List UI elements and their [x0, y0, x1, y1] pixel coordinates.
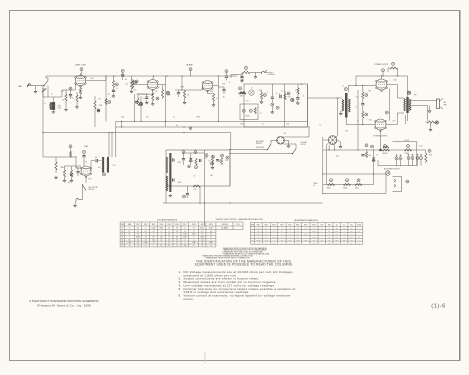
- svg-text:V6: V6: [121, 242, 123, 244]
- part ref circle C14 dark: [291, 98, 294, 101]
- svg-text:8.2: 8.2: [210, 231, 212, 233]
- svg-text:94: 94: [168, 228, 170, 230]
- part ref circle right of C12: [276, 106, 279, 109]
- capacitor C13: [280, 95, 281, 98]
- svg-text:ITEM: ITEM: [251, 224, 254, 226]
- resistor R2 grid leak: [76, 95, 78, 102]
- svg-text:INF: INF: [313, 234, 315, 236]
- part ref circle R10 dark: [139, 102, 142, 105]
- part ref circle T3: [407, 91, 410, 94]
- ground below C7: [145, 101, 148, 104]
- svg-text:-8.4: -8.4: [176, 236, 179, 238]
- wire screen rail x358: [357, 90, 359, 150]
- tuning capacitor C1A: [42, 89, 47, 92]
- svg-text:47K: 47K: [99, 99, 101, 101]
- svg-text:PIN 8: PIN 8: [312, 224, 316, 226]
- svg-text:NC: NC: [153, 236, 155, 238]
- part ref circle R18: [263, 94, 266, 97]
- svg-text:NC: NC: [358, 236, 360, 238]
- svg-text:50: 50: [267, 92, 269, 94]
- svg-text:250K: 250K: [121, 117, 124, 119]
- part ref circle R11 dark: [166, 91, 169, 94]
- ground below R22: [54, 176, 57, 179]
- part ref circles in detector box row1: [182, 151, 185, 154]
- svg-text:1 MEG: 1 MEG: [312, 231, 316, 233]
- svg-text:2.2K: 2.2K: [335, 231, 338, 233]
- svg-text:470K: 470K: [265, 234, 268, 236]
- wire V5 plate to coil: [90, 166, 92, 171]
- inner partition of box: [284, 84, 286, 127]
- svg-text:SWITCH: SWITCH: [256, 143, 262, 145]
- wire box riser x230.8: [230, 133, 232, 150]
- resistor R27 in box: [211, 158, 213, 164]
- resistor R4 470K osc grid: [94, 101, 96, 109]
- inner shield box: [240, 104, 258, 120]
- capacitor C17 padder: [96, 159, 97, 162]
- wire V6 top lead: [335, 136, 338, 137]
- svg-text:HTR: HTR: [201, 224, 204, 226]
- filter box outline: [378, 142, 417, 166]
- svg-text:50L6: 50L6: [393, 121, 396, 123]
- wire left vertical rail x106: [105, 76, 107, 121]
- svg-text:2.2K: 2.2K: [305, 239, 308, 241]
- svg-text:100K: 100K: [296, 234, 299, 236]
- output transformer T3 core: [406, 97, 408, 113]
- svg-text:1.2K: 1.2K: [297, 231, 300, 233]
- resistor R21 in shield box: [254, 108, 256, 114]
- svg-text:2.2K: 2.2K: [305, 234, 308, 236]
- junction dot on box top: [301, 84, 302, 85]
- svg-text:.0005: .0005: [204, 158, 208, 160]
- svg-text:8.2K: 8.2K: [289, 228, 292, 230]
- svg-text:1 MEG: 1 MEG: [196, 117, 200, 119]
- svg-text:470K: 470K: [240, 96, 244, 98]
- svg-text:AF AMP: AF AMP: [187, 64, 194, 67]
- part ref circles at filter: [365, 144, 368, 147]
- svg-text:470K: 470K: [99, 105, 103, 107]
- svg-text:100K: 100K: [296, 228, 299, 230]
- svg-text:1 MEG: 1 MEG: [256, 239, 260, 241]
- svg-text:85: 85: [168, 239, 170, 241]
- svg-text:0.3: 0.3: [289, 231, 291, 233]
- part ref circle L3 dark: [435, 121, 438, 124]
- ground below V1 cathode: [79, 96, 82, 99]
- wire T3 to speaker: [412, 99, 437, 101]
- svg-text:8.2K: 8.2K: [328, 236, 331, 238]
- svg-text:SPK.: SPK.: [444, 104, 448, 106]
- inner partition of detector box: [204, 150, 206, 186]
- svg-text:470K: 470K: [265, 239, 268, 241]
- svg-text:470K: 470K: [257, 236, 260, 238]
- svg-text:NC: NC: [351, 239, 353, 241]
- svg-text:1.2K: 1.2K: [343, 228, 346, 230]
- svg-text:-1.0: -1.0: [128, 245, 131, 247]
- part ref circles in detector box row2: [195, 166, 198, 169]
- resistor R23: [69, 152, 71, 157]
- wire oscillator to tube: [48, 96, 53, 98]
- wire V8 cathode to B+ bus: [380, 130, 382, 150]
- diode D2 rectifier symbol: [373, 150, 375, 174]
- voltage table grid: [120, 222, 243, 247]
- tube V7 50L6 output: [376, 79, 387, 90]
- wire tone circuit top: [231, 74, 242, 76]
- ground below C12: [271, 111, 274, 114]
- svg-text:25: 25: [295, 90, 297, 92]
- svg-text:47K: 47K: [218, 161, 220, 163]
- svg-text:1 MEG: 1 MEG: [180, 87, 184, 89]
- svg-text:680: 680: [98, 167, 100, 169]
- svg-text:NC: NC: [358, 231, 360, 233]
- svg-text:7.4: 7.4: [210, 245, 212, 247]
- phone jack J3: [76, 198, 83, 201]
- capacitor C5 bypass: [112, 90, 115, 91]
- svg-text:B+: B+: [320, 125, 322, 127]
- phono osc coil L2 winding B: [107, 157, 109, 173]
- resistor R22 left: [55, 162, 57, 170]
- IF transformer T1 core: [169, 153, 171, 192]
- svg-text:EQUIPMENT USED IS POSSIBLE: EQUIPMENT USED IS POSSIBLE TO READ THE C…: [195, 262, 292, 266]
- part ref circle R6: [108, 101, 111, 104]
- svg-text:-8.4: -8.4: [137, 228, 140, 230]
- svg-text:B+: B+: [336, 224, 338, 226]
- svg-text:270K: 270K: [225, 160, 228, 162]
- tone capacitor network top right: [390, 67, 397, 69]
- filter resistor row R37 R38 R39: [323, 184, 374, 186]
- svg-text:RESISTANCE READINGS: RESISTANCE READINGS: [294, 219, 318, 222]
- resistor R15 to grid: [239, 92, 246, 94]
- svg-text:OSC: OSC: [61, 91, 64, 93]
- resistor R28 in box: [220, 158, 222, 164]
- svg-text:-8.4: -8.4: [201, 239, 204, 241]
- part ref circle C2: [69, 87, 72, 90]
- part ref circle P3: [406, 180, 409, 183]
- svg-text:470: 470: [155, 91, 157, 93]
- cathode of V5 to switch: [85, 176, 87, 183]
- svg-text:1 MEG: 1 MEG: [256, 228, 260, 230]
- T1 secondary winding: [166, 176, 168, 191]
- part ref circle R4 dark: [97, 109, 100, 112]
- svg-text:POWER OUTPUT: POWER OUTPUT: [375, 64, 389, 66]
- wire T3 bottom down: [407, 113, 409, 121]
- svg-text:PIN 5: PIN 5: [167, 224, 171, 226]
- ground below R24: [63, 179, 66, 182]
- capacitor C19 in box: [216, 160, 219, 161]
- part ref circle R7: [134, 81, 137, 84]
- svg-text:NC: NC: [351, 228, 353, 230]
- part ref circle V1 top cap: [80, 68, 83, 71]
- junction dots ground bus y132.7: [42, 132, 43, 133]
- svg-text:.01: .01: [216, 98, 218, 100]
- filter electrolytic capacitors C23: [395, 157, 398, 160]
- svg-text:V2: V2: [121, 231, 123, 233]
- svg-text:100K: 100K: [273, 236, 276, 238]
- on-off switch S3: [268, 144, 272, 150]
- svg-text:5.: 5.: [179, 287, 182, 291]
- svg-text:A PHOTOFACT STANDARD NOTATI: A PHOTOFACT STANDARD NOTATION SCHEMATIC: [29, 299, 99, 303]
- svg-text:470K: 470K: [257, 231, 260, 233]
- svg-text:2.2K: 2.2K: [335, 242, 338, 244]
- svg-text:117V: 117V: [345, 131, 348, 133]
- wire ground bus y132.7: [43, 132, 231, 134]
- svg-text:.05: .05: [116, 88, 118, 90]
- resistor R26 in box: [195, 159, 197, 165]
- svg-text:OSC: OSC: [350, 224, 353, 226]
- wire box right edge: [306, 84, 308, 127]
- svg-text:95: 95: [168, 242, 170, 244]
- svg-text:20 20: 20 20: [419, 146, 423, 148]
- ground below field coil: [430, 126, 432, 128]
- capacitor C22: [361, 155, 364, 156]
- ground at P1: [284, 139, 288, 141]
- wire IF coupling corner: [137, 93, 146, 95]
- wire switch to socket: [270, 140, 272, 144]
- svg-text:PIN 4: PIN 4: [160, 224, 164, 226]
- svg-text:6.3: 6.3: [176, 125, 178, 127]
- svg-text:FILTER: FILTER: [405, 140, 410, 142]
- grid wires of converter: [62, 89, 75, 91]
- svg-text:INF: INF: [313, 239, 315, 241]
- wire AVC bus y121: [116, 120, 308, 122]
- svg-text:0.3: 0.3: [289, 236, 291, 238]
- wire diode to filter row: [373, 174, 375, 185]
- part ref circle V8: [385, 111, 388, 114]
- part ref circle T2: [344, 88, 347, 91]
- svg-text:V3: V3: [121, 234, 123, 236]
- capacitor C20 below box: [186, 194, 189, 195]
- svg-text:100: 100: [184, 245, 186, 247]
- diode D1: [189, 158, 192, 161]
- wires below V6: [327, 143, 329, 145]
- field coil L3: [427, 121, 435, 123]
- svg-text:ANT.: ANT.: [19, 85, 24, 88]
- svg-text:NC: NC: [160, 245, 162, 247]
- ground below J3: [73, 204, 76, 207]
- svg-text:PIN 2: PIN 2: [144, 224, 148, 226]
- junction dots B+ bus: [329, 149, 330, 150]
- ground below R1: [64, 108, 67, 111]
- svg-text:12SA7 CONV.: 12SA7 CONV.: [75, 64, 87, 67]
- fold mark below border: [204, 352, 206, 363]
- svg-text:220K: 220K: [286, 124, 289, 126]
- junction dots on AVC bus: [121, 121, 122, 122]
- svg-text:.05: .05: [194, 176, 196, 178]
- svg-text:10: 10: [281, 91, 283, 93]
- B+ bus y150: [323, 149, 426, 151]
- svg-text:PIN 7: PIN 7: [304, 224, 308, 226]
- coil leads up to ground bus: [108, 133, 110, 157]
- capacitor C14 electrolytic: [296, 98, 299, 99]
- ground at V6: [337, 140, 341, 142]
- screen bypass capacitor C4 .05: [121, 70, 124, 73]
- grid resistor R30 of V7: [362, 92, 364, 99]
- svg-text:270 150: 270 150: [245, 116, 250, 118]
- ground below C14: [297, 100, 299, 101]
- capacitor C11 at volume control: [240, 76, 243, 77]
- part ref circle R36: [428, 149, 431, 152]
- ground below R9: [152, 101, 154, 103]
- wire cathode network: [138, 93, 153, 95]
- svg-text:100K: 100K: [296, 239, 299, 241]
- svg-text:100K: 100K: [222, 84, 225, 86]
- svg-text:1.3: 1.3: [210, 236, 212, 238]
- potentiometer R25: [70, 170, 72, 177]
- part ref circle R16 wiper: [245, 66, 248, 69]
- wire V2 grid: [132, 79, 134, 80]
- svg-text:ON-OFF SW.: ON-OFF SW.: [256, 147, 265, 149]
- svg-text:470K: 470K: [288, 97, 291, 99]
- wire box bottom to ground bus: [199, 186, 201, 203]
- phono osc coil L2 winding A: [102, 157, 104, 173]
- svg-text:NC: NC: [128, 239, 130, 241]
- svg-text:PIN 5: PIN 5: [289, 224, 293, 226]
- part ref circle R23: [69, 145, 72, 148]
- svg-text:8.2K: 8.2K: [289, 239, 292, 241]
- svg-text:NC: NC: [351, 234, 353, 236]
- svg-text:.05: .05: [125, 79, 127, 81]
- svg-text:250K: 250K: [168, 95, 171, 97]
- svg-text:0.3: 0.3: [289, 242, 291, 244]
- part ref circle C12: [271, 103, 274, 106]
- svg-text:V7: V7: [121, 245, 123, 247]
- svg-text:22K: 22K: [336, 228, 338, 230]
- wire interlock to ground bus: [385, 174, 387, 194]
- wire rail to output transformer top: [407, 76, 409, 97]
- resistance table grid: [250, 223, 362, 245]
- svg-text:V4: V4: [121, 236, 123, 238]
- svg-text:T2: T2: [343, 86, 345, 88]
- svg-text:250K: 250K: [259, 90, 262, 92]
- part ref circle above V3: [189, 68, 192, 71]
- wire to on-off switch: [230, 149, 268, 151]
- ground speaker lead: [429, 106, 431, 110]
- wire B+ top rail: [46, 75, 237, 77]
- svg-text:ments.: ments.: [184, 297, 195, 301]
- wire V5 grid: [75, 156, 77, 168]
- svg-text:TUBE: TUBE: [128, 224, 132, 226]
- ground in box: [212, 164, 214, 166]
- wire V7 plate to output transformer: [387, 84, 398, 86]
- svg-text:.47: .47: [193, 228, 195, 230]
- svg-text:COIL: COIL: [58, 108, 62, 110]
- T3 primary winding: [404, 99, 406, 111]
- svg-text:22K: 22K: [194, 189, 197, 191]
- svg-text:.02: .02: [276, 93, 278, 95]
- capacitor C10 .05 coupling: [222, 90, 225, 91]
- svg-text:10K: 10K: [108, 94, 110, 96]
- svg-text:.05: .05: [173, 117, 175, 119]
- ground below R25: [70, 179, 73, 182]
- svg-text:8.2: 8.2: [137, 239, 139, 241]
- svg-text:NC: NC: [358, 242, 360, 244]
- resistor R35 5.6K: [365, 152, 367, 158]
- ground below C5: [112, 95, 115, 98]
- svg-text:.0001: .0001: [90, 78, 94, 80]
- resistor R12 diode load: [183, 91, 185, 99]
- svg-text:.05: .05: [223, 97, 225, 99]
- svg-text:PIN 8: PIN 8: [192, 224, 196, 226]
- svg-text:1150Ω: 1150Ω: [343, 187, 347, 189]
- junction dots ground bus: [199, 202, 200, 203]
- svg-text:1 MEG: 1 MEG: [256, 234, 260, 236]
- svg-text:TOP: TOP: [320, 224, 323, 226]
- svg-text:0.3: 0.3: [328, 228, 330, 230]
- ground below antenna jack: [35, 86, 37, 91]
- svg-text:OSC: OSC: [113, 165, 116, 167]
- svg-text:22K: 22K: [336, 239, 338, 241]
- svg-text:PIN 7: PIN 7: [183, 224, 187, 226]
- interstage transformer T2 core: [345, 93, 348, 118]
- part ref circle C20: [183, 195, 186, 198]
- svg-text:35Z5: 35Z5: [336, 156, 339, 158]
- tube V5 phono oscillator: [81, 166, 91, 176]
- wire switch to jack: [82, 185, 84, 198]
- wire V7 top to rail: [381, 76, 383, 79]
- cathode resistor R9 of V2: [152, 90, 154, 94]
- resistor R10: [137, 99, 139, 106]
- 2nd IF-detector shield box: [166, 150, 230, 186]
- ground below T1: [169, 194, 172, 197]
- wire V2 top to rail: [152, 76, 155, 80]
- svg-text:97: 97: [193, 231, 195, 233]
- part ref circle R30: [365, 94, 368, 97]
- part ref circle R8: [135, 80, 138, 83]
- svg-text:PIN 3: PIN 3: [152, 224, 156, 226]
- svg-text:45: 45: [129, 234, 131, 236]
- svg-text:V1: V1: [121, 228, 123, 230]
- wire screen rail x165.6: [165, 76, 167, 127]
- ground below R13: [213, 101, 215, 104]
- part ref circles filter row: [330, 179, 333, 182]
- svg-text:1.2K: 1.2K: [297, 236, 300, 238]
- svg-text:.05: .05: [143, 98, 145, 100]
- capacitor C6 IF trimmer: [135, 102, 138, 103]
- ground below R12: [184, 98, 186, 101]
- svg-text:PIN 6: PIN 6: [175, 224, 179, 226]
- resistor R36 bleeder: [425, 154, 427, 162]
- svg-text:22K: 22K: [351, 231, 353, 233]
- svg-text:100K: 100K: [273, 242, 276, 244]
- part ref circle C6: [139, 103, 142, 106]
- band switch S1: [44, 81, 48, 86]
- wire antenna to band switch: [34, 85, 44, 87]
- wire to phono jack: [250, 72, 262, 74]
- resistor R29 on box bottom: [193, 185, 200, 187]
- phono input jack J2: [262, 70, 267, 74]
- T1 trimmer capacitors: [173, 159, 174, 162]
- wire tuning section vertical: [47, 86, 49, 98]
- tube V1 12SA7 converter: [75, 75, 85, 85]
- svg-text:50K: 50K: [76, 168, 78, 170]
- svg-text:VOLTAGE READINGS: VOLTAGE READINGS: [157, 218, 178, 221]
- ground below C11: [241, 78, 243, 81]
- volume control R16: [242, 71, 250, 73]
- svg-text:100: 100: [160, 236, 162, 238]
- svg-text:7.4: 7.4: [176, 239, 178, 241]
- ground at T2: [341, 110, 342, 112]
- svg-text:8.2K: 8.2K: [328, 231, 331, 233]
- svg-text:2.1: 2.1: [145, 245, 147, 247]
- wire detector network: [175, 89, 191, 91]
- resistor R5 screen dropper: [112, 81, 114, 88]
- capacitor C12 in box: [271, 97, 274, 98]
- svg-text:50L6: 50L6: [394, 80, 397, 82]
- wire rail x182 drop: [181, 76, 183, 90]
- svg-text:NOTE: NOTE: [209, 224, 213, 226]
- svg-text:NOTE: NOTE: [357, 224, 361, 226]
- components on B- bus: [189, 127, 192, 130]
- svg-text:20: 20: [303, 96, 305, 98]
- ground bus y203: [163, 202, 323, 204]
